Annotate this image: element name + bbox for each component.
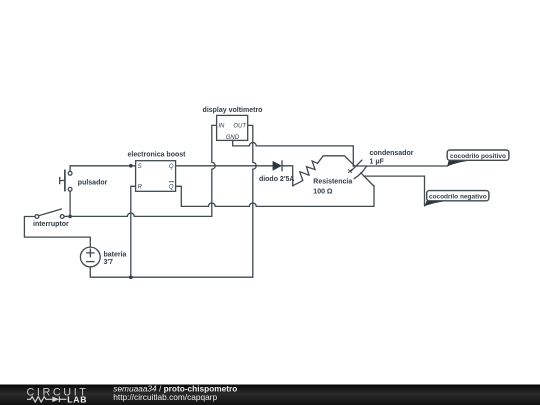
svg-text:S: S: [138, 164, 142, 170]
svg-text:display voltimetro: display voltimetro: [203, 107, 263, 114]
node C junction dot: [129, 275, 133, 279]
wire: resistor lead, plateau and diagonal to capacitor: [318, 156, 355, 166]
wire: battery minus bottom bus up to display OUT (hop at Q wire): [90, 125, 256, 277]
flip-flop U1 electronica boost: [136, 161, 176, 192]
svg-text:electronica boost: electronica boost: [128, 151, 187, 158]
wire: pulsador top to S input: [70, 166, 136, 172]
svg-text:pulsador: pulsador: [78, 179, 108, 186]
resistor R1 zigzag: [293, 161, 318, 186]
wire: Q output to diode anode: [176, 165, 273, 167]
wire: Qbar output down and right to capacitor bottom (two hops): [176, 186, 374, 206]
wire: capacitor top to cocodrilo positivo: [353, 165, 447, 167]
svg-text:OUT: OUT: [233, 124, 247, 130]
svg-text:1 μF: 1 μF: [370, 159, 385, 166]
display voltimetro box U2: [217, 115, 248, 141]
wire: capacitor bottom to cocodrilo negativo: [364, 176, 424, 206]
node B junction dot: [68, 215, 72, 219]
logo zigzag wire and diode: [27, 397, 67, 403]
svg-text:R: R: [138, 185, 143, 191]
switch SW2 interruptor: [35, 209, 64, 218]
svg-text:cocodrilo positivo: cocodrilo positivo: [450, 153, 506, 160]
svg-text:cocodrilo negativo: cocodrilo negativo: [429, 194, 487, 201]
svg-text:LAB: LAB: [67, 394, 87, 404]
svg-text:100 Ω: 100 Ω: [313, 189, 333, 196]
svg-text:Resistencia: Resistencia: [313, 179, 352, 186]
capacitor C1 polarized: [348, 160, 366, 178]
footer bar: [0, 383, 540, 405]
wire: GND pin down right to capacitor top (hop over OUT vertical): [233, 140, 354, 166]
svg-text:http://circuitlab.com/capqarp: http://circuitlab.com/capqarp: [113, 392, 217, 402]
wire: pulsador bottom to interruptor node: [69, 191, 71, 216]
svg-text:interruptor: interruptor: [33, 221, 69, 228]
pushbutton SW1 pulsador: [60, 170, 72, 191]
svg-text:Q: Q: [169, 185, 174, 191]
svg-text:condensador: condensador: [370, 150, 414, 157]
battery V1: [80, 247, 100, 267]
flag cocodrilo positivo: [447, 150, 509, 167]
svg-text:bateria: bateria: [104, 251, 127, 258]
svg-text:diodo 2'5A: diodo 2'5A: [259, 176, 295, 183]
wire: diode cathode to resistor start: [282, 166, 293, 186]
node A junction dot: [129, 164, 133, 168]
wire: R pin down to bottom bus: [131, 186, 136, 277]
wire: interruptor left to battery plus: [24, 217, 90, 248]
svg-text:Q: Q: [169, 164, 174, 170]
wire: capacitor bottom diagonal: [361, 173, 374, 186]
flag cocodrilo negativo: [425, 191, 489, 207]
svg-text:IN: IN: [218, 124, 225, 130]
diode D1: [273, 161, 282, 171]
wire: interruptor right up to display IN (hop over R wire, hop at Q wire): [64, 125, 217, 216]
svg-text:3'7: 3'7: [104, 259, 114, 266]
